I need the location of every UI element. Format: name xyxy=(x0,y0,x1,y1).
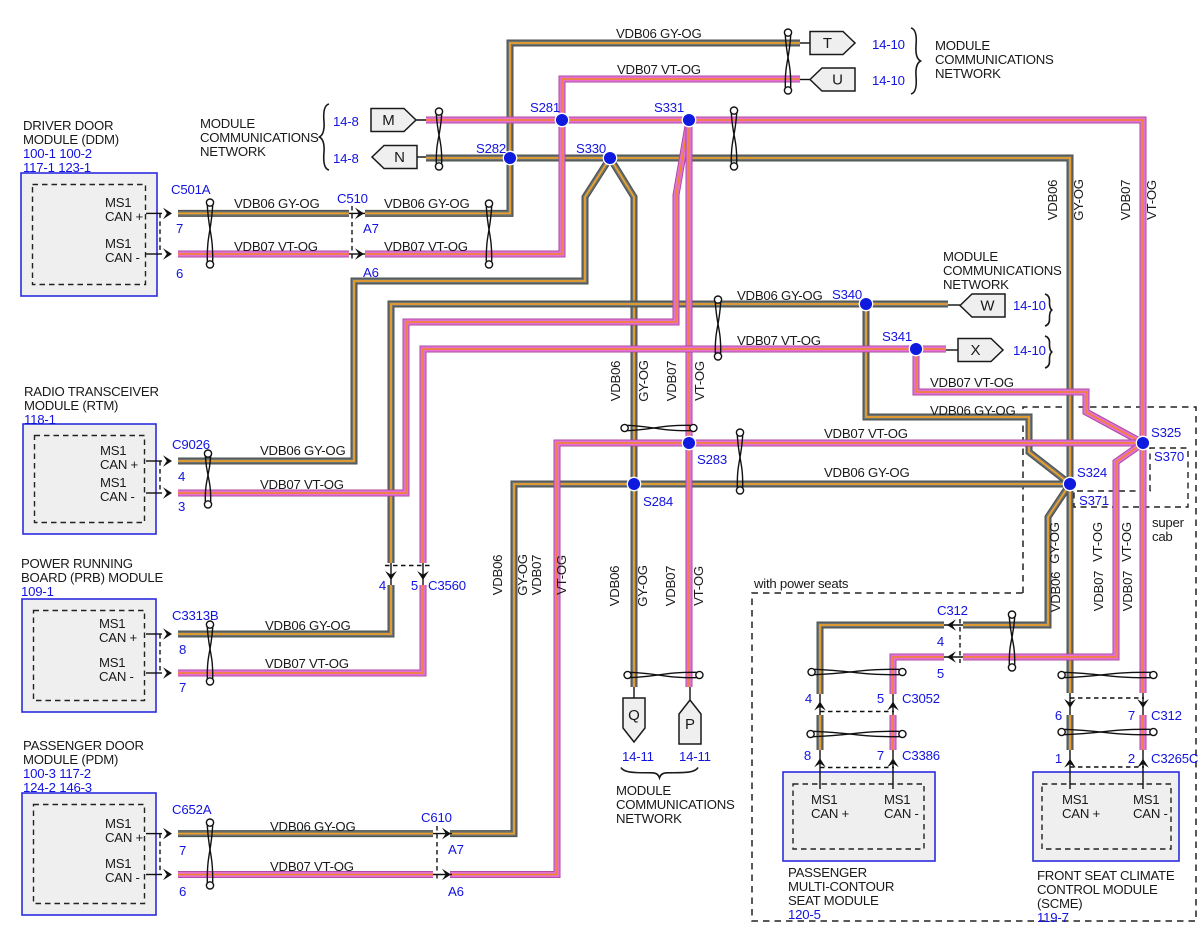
svg-text:VDB07: VDB07 xyxy=(529,555,544,596)
C312 pin6 arrow xyxy=(1064,699,1076,708)
splice S282 xyxy=(503,151,516,164)
takeout clamp above S283/S284 xyxy=(621,424,697,431)
svg-text:VT-OG: VT-OG xyxy=(691,566,706,606)
svg-text:P: P xyxy=(685,716,695,733)
brace under Q/P 14-11 refs xyxy=(621,768,698,778)
wire VDB06 S324 branch to C312 pin4 left segment (GY-OG) xyxy=(963,484,1070,625)
svg-text:VDB07 VT-OG: VDB07 VT-OG xyxy=(234,239,318,254)
svg-text:COMMUNICATIONS: COMMUNICATIONS xyxy=(616,797,735,812)
svg-text:CONTROL MODULE: CONTROL MODULE xyxy=(1037,882,1158,897)
svg-text:VDB06 GY-OG: VDB06 GY-OG xyxy=(260,443,345,458)
wire VDB07 C312 pin5 to seat riser (VT-OG) xyxy=(893,657,944,694)
svg-text:CAN -: CAN - xyxy=(105,250,140,265)
splice S284 xyxy=(627,477,640,490)
svg-text:MS1: MS1 xyxy=(100,443,126,458)
svg-text:NETWORK: NETWORK xyxy=(935,66,1001,81)
svg-text:SEAT MODULE: SEAT MODULE xyxy=(788,893,879,908)
connector C510 pin A6 link xyxy=(349,253,365,255)
svg-text:S281: S281 xyxy=(530,100,560,115)
svg-text:MODULE: MODULE xyxy=(943,249,998,264)
takeout clamp above Q/P xyxy=(624,671,703,678)
svg-text:109-1: 109-1 xyxy=(21,584,54,599)
C312 pin7 arrow xyxy=(1137,699,1149,708)
svg-text:CAN +: CAN + xyxy=(1062,806,1101,821)
connector C3386 pin7 link xyxy=(892,750,894,789)
link line T xyxy=(800,42,810,44)
svg-text:6: 6 xyxy=(1055,708,1062,723)
wire VDB06 S340 branch down to S324 (GY-OG) xyxy=(866,304,1070,484)
module PASSENGER MULTI-CONTOUR SEAT MODULE xyxy=(783,772,935,861)
connector C3560 dashed line xyxy=(385,565,430,567)
svg-text:4: 4 xyxy=(178,469,185,484)
pin line DDM y=254.0 xyxy=(146,253,162,255)
svg-text:POWER RUNNING: POWER RUNNING xyxy=(21,556,133,571)
pin line PRB y=673 xyxy=(146,672,162,674)
wire VDB06 C510 to S282 riser to T takeout (GY-OG) xyxy=(365,43,800,213)
svg-text:S284: S284 xyxy=(643,494,673,509)
svg-text:MS1: MS1 xyxy=(105,816,131,831)
svg-text:119-7: 119-7 xyxy=(1037,910,1069,925)
svg-text:S331: S331 xyxy=(654,100,684,115)
splice S330 xyxy=(603,151,616,164)
super cab / with power seats dashed region xyxy=(752,407,1196,921)
svg-text:C3265C: C3265C xyxy=(1151,751,1199,766)
pin line PRB y=634 xyxy=(146,633,162,635)
connector C312 pin5 link xyxy=(944,656,963,658)
svg-text:MODULE (DDM): MODULE (DDM) xyxy=(23,132,119,147)
connector C312 pin6 link xyxy=(1069,693,1071,715)
C3560 pin5 arrow xyxy=(417,571,429,580)
wire VDB07 seat riser C3052-C3386 segment (VT-OG) xyxy=(892,715,894,750)
svg-text:MODULE: MODULE xyxy=(935,38,990,53)
takeout clamp after C510 xyxy=(485,200,492,268)
takeout clamp seat module upper xyxy=(808,668,906,675)
svg-text:7: 7 xyxy=(1128,708,1135,723)
svg-text:M: M xyxy=(382,112,395,129)
connector C312 pin4 link xyxy=(944,624,963,626)
svg-text:117-1 123-1: 117-1 123-1 xyxy=(23,160,91,175)
wire VDB07 C3265C pin2 segment (VT-OG) xyxy=(1142,715,1144,750)
brace right of X 14-10 xyxy=(1045,336,1052,368)
svg-text:GY-OG: GY-OG xyxy=(515,554,530,596)
svg-text:VDB07: VDB07 xyxy=(1118,180,1133,221)
svg-text:VT-OG: VT-OG xyxy=(554,555,569,595)
svg-text:MODULE: MODULE xyxy=(200,116,255,131)
svg-text:VDB07: VDB07 xyxy=(664,361,679,402)
svg-text:GY-OG: GY-OG xyxy=(636,360,651,402)
splice S325 xyxy=(1136,436,1149,449)
svg-text:VDB07 VT-OG: VDB07 VT-OG xyxy=(824,426,908,441)
connector C3052 pin4 link xyxy=(819,694,821,715)
C510 A7 arrow xyxy=(355,208,364,220)
svg-text:CAN +: CAN + xyxy=(99,630,138,645)
svg-text:S330: S330 xyxy=(576,141,606,156)
svg-text:GY-OG: GY-OG xyxy=(635,565,650,607)
link line W xyxy=(948,304,960,306)
svg-text:MS1: MS1 xyxy=(1062,792,1088,807)
svg-text:VDB06 GY-OG: VDB06 GY-OG xyxy=(824,465,909,480)
svg-text:7: 7 xyxy=(877,748,884,763)
svg-text:14-10: 14-10 xyxy=(872,37,905,52)
C3386 pin8 arrow xyxy=(814,758,826,767)
svg-text:(SCME): (SCME) xyxy=(1037,896,1082,911)
svg-text:3: 3 xyxy=(178,499,185,514)
connector C3560 pin5 link xyxy=(422,563,424,585)
connector C3560 pin4 link xyxy=(390,563,392,585)
svg-text:MS1: MS1 xyxy=(99,616,125,631)
module RTM Radio Transceiver Module xyxy=(23,424,156,534)
svg-text:5: 5 xyxy=(877,691,884,706)
pin arrow RTM xyxy=(163,455,172,467)
svg-text:1: 1 xyxy=(1055,751,1062,766)
svg-text:CAN -: CAN - xyxy=(105,870,140,885)
svg-text:S340: S340 xyxy=(832,287,862,302)
svg-text:VDB06: VDB06 xyxy=(1048,572,1063,613)
wire VDB06 C312 pin6 to C3265C pin1 segment (GY-OG) xyxy=(1069,715,1071,750)
svg-text:S324: S324 xyxy=(1077,465,1107,480)
splice S331 xyxy=(682,113,695,126)
svg-text:S283: S283 xyxy=(697,452,727,467)
pin arrow PDM xyxy=(163,828,172,840)
wire VDB07 C610 to riser to S283 line to S325 (VT-OG) xyxy=(450,443,1143,875)
pin line DDM y=213.4 xyxy=(146,212,162,214)
connector C9026 dashed line xyxy=(159,461,161,493)
connector C610 pin A6 link xyxy=(433,874,452,876)
svg-text:CAN +: CAN + xyxy=(105,209,144,224)
takeout clamp SCME lower xyxy=(1058,728,1157,735)
connector C510 dashed line xyxy=(351,206,353,261)
off-page connector X xyxy=(958,339,1003,362)
takeout clamp S340/S341 wires xyxy=(714,296,721,360)
connector C312 pin7 link xyxy=(1142,693,1144,715)
wire VDB06 C312 pin4 to seat riser (GY-OG) xyxy=(820,625,944,694)
svg-text:MS1: MS1 xyxy=(105,236,131,251)
svg-text:14-10: 14-10 xyxy=(872,73,905,88)
wire VDB06 DDM CAN+ to C510 (GY-OG) xyxy=(178,212,349,214)
wire VDB06 S324 down to C312 pin6 (GY-OG) xyxy=(1069,484,1071,693)
wire VDB06 S330 left leg to RTM CAN+ (GY-OG) xyxy=(178,158,610,461)
module PRB Power Running Board Module xyxy=(22,599,156,712)
link line P xyxy=(689,687,691,700)
svg-text:5: 5 xyxy=(937,666,944,681)
svg-text:CAN -: CAN - xyxy=(1133,806,1168,821)
wire VDB06 C3560 pin4 up to S340 and W takeout (GY-OG) xyxy=(391,304,948,563)
connector C610 pin A7 link xyxy=(433,833,452,835)
svg-text:14-8: 14-8 xyxy=(333,114,359,129)
off-page connector U xyxy=(810,68,855,91)
svg-text:4: 4 xyxy=(805,691,812,706)
svg-text:VDB07 VT-OG: VDB07 VT-OG xyxy=(930,375,1014,390)
svg-text:VDB06 GY-OG: VDB06 GY-OG xyxy=(265,618,350,633)
C3265C pin2 arrow xyxy=(1137,759,1149,768)
svg-text:COMMUNICATIONS: COMMUNICATIONS xyxy=(200,130,319,145)
wire VDB07 S325 branch to C312 pin5 left segment (VT-OG) xyxy=(963,443,1143,657)
svg-text:VDB07 VT-OG: VDB07 VT-OG xyxy=(617,62,701,77)
svg-text:PASSENGER DOOR: PASSENGER DOOR xyxy=(23,738,144,753)
connector C3265C pin1 link xyxy=(1069,750,1071,789)
wire VDB07 PRB CAN- up to C3560 pin5 (VT-OG) xyxy=(178,585,423,673)
svg-text:2: 2 xyxy=(1128,751,1135,766)
svg-text:VDB07: VDB07 xyxy=(663,566,678,607)
svg-text:7: 7 xyxy=(179,843,186,858)
module PDM Passenger Door Module xyxy=(22,793,156,915)
svg-text:CAN -: CAN - xyxy=(99,669,134,684)
takeout clamp C312 power-seat wires xyxy=(1008,611,1015,671)
takeout clamp DDM C501A xyxy=(206,199,213,268)
wire VDB06 S330 right leg down through S284 to Q (GY-OG) xyxy=(610,158,634,687)
pin line RTM y=461 xyxy=(146,460,162,462)
svg-text:N: N xyxy=(394,149,405,166)
svg-text:C3560: C3560 xyxy=(428,578,466,593)
svg-text:120-5: 120-5 xyxy=(788,907,821,922)
svg-text:MS1: MS1 xyxy=(884,792,910,807)
brace right of W 14-10 xyxy=(1045,294,1052,326)
splice S370 alternate-location dashed box xyxy=(1074,448,1188,507)
svg-text:100-1 100-2: 100-1 100-2 xyxy=(23,146,92,161)
svg-text:14-11: 14-11 xyxy=(679,749,711,764)
svg-text:CAN +: CAN + xyxy=(811,806,850,821)
svg-text:CAN +: CAN + xyxy=(100,457,139,472)
off-page connector T xyxy=(810,32,855,55)
svg-text:S325: S325 xyxy=(1151,425,1181,440)
svg-text:14-10: 14-10 xyxy=(1013,298,1046,313)
svg-text:VDB06 GY-OG: VDB06 GY-OG xyxy=(270,819,355,834)
link line M xyxy=(404,119,426,121)
svg-text:VT-OG: VT-OG xyxy=(692,361,707,401)
C610 A7 arrow xyxy=(442,828,451,840)
svg-text:CAN -: CAN - xyxy=(100,489,135,504)
C3052 pin4 arrow xyxy=(814,702,826,711)
splice S341 xyxy=(909,342,922,355)
connector C3313B dashed line xyxy=(159,634,161,673)
svg-text:C510: C510 xyxy=(337,191,368,206)
splice S283 xyxy=(682,436,695,449)
svg-text:C501A: C501A xyxy=(171,182,211,197)
svg-text:VDB07 VT-OG: VDB07 VT-OG xyxy=(265,656,349,671)
svg-text:A6: A6 xyxy=(363,265,379,280)
svg-text:FRONT SEAT CLIMATE: FRONT SEAT CLIMATE xyxy=(1037,868,1175,883)
C312 pin5 arrow xyxy=(947,651,956,663)
svg-text:COMMUNICATIONS: COMMUNICATIONS xyxy=(935,52,1054,67)
pin arrow DDM xyxy=(163,248,172,260)
svg-text:NETWORK: NETWORK xyxy=(200,144,266,159)
link line Q xyxy=(633,687,635,698)
brace right of T/U 14-10 refs xyxy=(911,28,921,94)
svg-text:NETWORK: NETWORK xyxy=(616,811,682,826)
takeout clamp M/N wires right xyxy=(730,107,737,170)
pin arrow PDM xyxy=(163,869,172,881)
svg-text:C312: C312 xyxy=(937,603,968,618)
svg-text:MULTI-CONTOUR: MULTI-CONTOUR xyxy=(788,879,894,894)
pin arrow RTM xyxy=(163,487,172,499)
takeout clamp seat module lower xyxy=(807,730,906,737)
svg-text:VDB06 GY-OG: VDB06 GY-OG xyxy=(384,196,469,211)
svg-text:GY-OG: GY-OG xyxy=(1047,522,1062,564)
svg-text:C3386: C3386 xyxy=(902,748,940,763)
pin arrow DDM xyxy=(163,208,172,220)
wire VDB07 DDM CAN- to C510 (VT-OG) xyxy=(178,253,349,255)
wire VDB06 C610 to riser to S284 line to S324 (GY-OG) xyxy=(450,484,1070,834)
svg-text:118-1: 118-1 xyxy=(24,412,56,427)
takeout clamp S283/S284 wires xyxy=(736,429,743,494)
svg-text:MODULE: MODULE xyxy=(616,783,671,798)
svg-text:C9026: C9026 xyxy=(172,437,210,452)
connector C610 dashed line xyxy=(436,826,438,882)
C610 A6 arrow xyxy=(442,869,451,881)
svg-text:6: 6 xyxy=(176,266,183,281)
C3386 pin7 arrow xyxy=(887,758,899,767)
wire VDB07 S341 branch jog to S325 (VT-OG) xyxy=(916,349,1143,443)
svg-text:MS1: MS1 xyxy=(99,655,125,670)
off-page connector N xyxy=(372,146,417,169)
pin arrow PRB xyxy=(163,667,172,679)
link line U xyxy=(800,79,810,81)
splice S340 xyxy=(859,297,872,310)
svg-text:5: 5 xyxy=(411,578,418,593)
svg-text:VDB06 GY-OG: VDB06 GY-OG xyxy=(616,26,701,41)
wire VDB07 S331 right leg down through S283 to P (VT-OG) xyxy=(688,120,690,687)
svg-text:C610: C610 xyxy=(421,810,452,825)
svg-text:COMMUNICATIONS: COMMUNICATIONS xyxy=(943,263,1062,278)
svg-text:T: T xyxy=(823,35,832,52)
svg-text:MS1: MS1 xyxy=(105,856,131,871)
connector C3052 dashed line xyxy=(820,711,894,713)
connector C312 left dashed line xyxy=(959,619,961,663)
takeout clamp RTM C9026 xyxy=(204,450,211,508)
svg-text:MS1: MS1 xyxy=(1133,792,1159,807)
svg-text:S341: S341 xyxy=(882,329,912,344)
C510 A6 arrow xyxy=(355,248,364,260)
wire VDB06 PDM CAN+ to C610 (GY-OG) xyxy=(178,833,433,835)
svg-text:100-3 117-2: 100-3 117-2 xyxy=(23,766,91,781)
takeout clamp T/U wires xyxy=(784,29,791,94)
svg-text:CAN +: CAN + xyxy=(105,830,144,845)
svg-text:A6: A6 xyxy=(448,884,464,899)
svg-text:with power seats: with power seats xyxy=(753,576,849,591)
splice S324 xyxy=(1063,477,1076,490)
svg-text:VT-OG: VT-OG xyxy=(1119,522,1134,562)
svg-text:GY-OG: GY-OG xyxy=(1071,179,1086,221)
wire VDB07 C510 to S281 riser to U takeout (VT-OG) xyxy=(365,79,800,254)
svg-text:VDB07: VDB07 xyxy=(1120,571,1135,612)
takeout clamp PRB C3313B xyxy=(206,621,213,685)
svg-text:S282: S282 xyxy=(476,141,506,156)
wire VDB06 seat riser C3052-C3386 segment (GY-OG) xyxy=(819,715,821,750)
svg-text:Q: Q xyxy=(628,707,640,724)
svg-text:VDB06: VDB06 xyxy=(490,555,505,596)
svg-text:7: 7 xyxy=(176,221,183,236)
takeout clamp PDM C652A xyxy=(206,819,213,889)
svg-text:C3313B: C3313B xyxy=(172,608,219,623)
svg-text:VDB06 GY-OG: VDB06 GY-OG xyxy=(234,196,319,211)
off-page connector Q xyxy=(623,698,645,742)
pin line PDM y=833.6 xyxy=(146,833,162,835)
connector C510 pin A7 link xyxy=(349,212,365,214)
svg-text:14-8: 14-8 xyxy=(333,151,359,166)
svg-text:8: 8 xyxy=(804,748,811,763)
svg-text:S371: S371 xyxy=(1079,493,1109,508)
svg-text:14-11: 14-11 xyxy=(622,749,654,764)
wire VDB07 PDM CAN- to C610 (VT-OG) xyxy=(178,874,433,876)
svg-text:DRIVER DOOR: DRIVER DOOR xyxy=(23,118,113,133)
svg-text:C312: C312 xyxy=(1151,708,1182,723)
off-page connector M xyxy=(371,109,416,132)
takeout clamp SCME upper xyxy=(1058,671,1157,678)
module DDM Driver Door Module xyxy=(21,173,157,296)
svg-text:VDB06 GY-OG: VDB06 GY-OG xyxy=(737,288,822,303)
wire VDB07 S331 left leg to RTM CAN- (VT-OG) xyxy=(178,120,689,493)
svg-text:6: 6 xyxy=(179,884,186,899)
pin arrow PRB xyxy=(163,628,172,640)
svg-text:VDB06: VDB06 xyxy=(1045,180,1060,221)
pin line PDM y=874.5 xyxy=(146,874,162,876)
wire VDB07 M takeout to corner down to S325 (VT-OG) xyxy=(426,120,1143,693)
connector C652A dashed line xyxy=(159,834,161,875)
svg-text:MODULE (RTM): MODULE (RTM) xyxy=(24,398,118,413)
svg-text:MS1: MS1 xyxy=(811,792,837,807)
svg-text:A7: A7 xyxy=(448,842,464,857)
connector C3265C dashed line xyxy=(1070,766,1144,768)
svg-text:MS1: MS1 xyxy=(100,475,126,490)
wire VDB06 PRB CAN+ up to C3560 pin4 (GY-OG) xyxy=(178,585,391,634)
svg-text:4: 4 xyxy=(379,578,386,593)
svg-text:VDB07 VT-OG: VDB07 VT-OG xyxy=(384,239,468,254)
svg-text:MS1: MS1 xyxy=(105,195,131,210)
connector C3265C pin2 link xyxy=(1142,750,1144,789)
link line X xyxy=(946,349,958,351)
svg-text:U: U xyxy=(832,72,843,89)
splice S281 xyxy=(555,113,568,126)
svg-text:VDB07 VT-OG: VDB07 VT-OG xyxy=(737,333,821,348)
svg-text:VDB06 GY-OG: VDB06 GY-OG xyxy=(930,403,1015,418)
connector C312 right dashed line xyxy=(1070,697,1144,699)
module SCME Front Seat Climate Control Module xyxy=(1033,772,1179,861)
C3265C pin1 arrow xyxy=(1064,759,1076,768)
svg-text:W: W xyxy=(980,298,995,315)
connector C3052 pin5 link xyxy=(892,694,894,715)
connector C3386 pin8 link xyxy=(819,750,821,789)
svg-text:A7: A7 xyxy=(363,221,379,236)
svg-text:14-10: 14-10 xyxy=(1013,343,1046,358)
svg-text:CAN -: CAN - xyxy=(884,806,919,821)
takeout clamp M/N wires xyxy=(435,108,442,170)
link line N xyxy=(417,156,426,158)
svg-text:PASSENGER: PASSENGER xyxy=(788,865,867,880)
C312 pin4 arrow xyxy=(947,619,956,631)
off-page connector W xyxy=(960,294,1005,317)
wire VDB06 N takeout to corner, down to S324 (GY-OG) xyxy=(426,158,1070,693)
C3560 pin4 arrow xyxy=(385,571,397,580)
svg-text:C652A: C652A xyxy=(172,802,212,817)
svg-text:S370: S370 xyxy=(1154,449,1184,464)
pin line RTM y=493 xyxy=(146,492,162,494)
svg-text:VDB06: VDB06 xyxy=(607,566,622,607)
svg-text:NETWORK: NETWORK xyxy=(943,277,1009,292)
svg-text:124-2 146-3: 124-2 146-3 xyxy=(23,780,92,795)
svg-text:7: 7 xyxy=(179,680,186,695)
svg-text:RADIO TRANSCEIVER: RADIO TRANSCEIVER xyxy=(24,384,159,399)
svg-text:8: 8 xyxy=(179,642,186,657)
svg-text:C3052: C3052 xyxy=(902,691,940,706)
svg-text:VT-OG: VT-OG xyxy=(1090,522,1105,562)
svg-text:VDB07 VT-OG: VDB07 VT-OG xyxy=(260,477,344,492)
svg-text:VDB07 VT-OG: VDB07 VT-OG xyxy=(270,859,354,874)
svg-text:BOARD (PRB) MODULE: BOARD (PRB) MODULE xyxy=(21,570,163,585)
svg-text:VDB07: VDB07 xyxy=(1091,571,1106,612)
svg-text:VDB06: VDB06 xyxy=(608,361,623,402)
wire VDB07 C3560 pin5 up to S341 and X takeout (VT-OG) xyxy=(423,349,946,563)
C3052 pin5 arrow xyxy=(887,702,899,711)
